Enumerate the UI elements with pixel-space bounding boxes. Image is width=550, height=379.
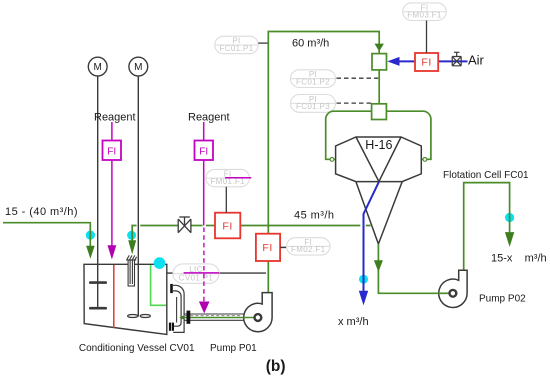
- arrow reagent1 into vessel: [108, 245, 117, 259]
- agitator paddle 2: [128, 315, 138, 318]
- svg-text:Reagent: Reagent: [188, 112, 230, 124]
- arrow tiny green suction start: [179, 315, 184, 320]
- svg-text:Conditioning Vessel CV01: Conditioning Vessel CV01: [79, 343, 195, 354]
- svg-text:M: M: [134, 62, 142, 73]
- wire reagent 2 magenta: [203, 122, 205, 226]
- wire green suction line: [183, 317, 255, 319]
- conditioning vessel CV01 body: [84, 264, 167, 334]
- svg-text:FM03.F1: FM03.F1: [407, 11, 442, 20]
- pump P01: [244, 293, 272, 332]
- arrow magenta dashed onto pump suction: [199, 302, 210, 314]
- vessel discharge flange bottom: [169, 323, 171, 331]
- instrument tag PI FC01.P1: [215, 36, 258, 54]
- wire LIC black process line: [167, 272, 266, 274]
- svg-text:Reagent: Reagent: [94, 112, 136, 124]
- wire main vertical A with top run to cell inlet: [268, 32, 379, 293]
- pump P02 hub: [450, 290, 457, 297]
- svg-text:FC01.P3: FC01.P3: [296, 102, 330, 111]
- node square S1 air mixer: [372, 54, 387, 70]
- wire cone underflow to pump P02: [378, 244, 448, 293]
- instrument FI reagent1 box: [103, 141, 122, 161]
- svg-text:Pump P02: Pump P02: [479, 294, 526, 305]
- node cyan dot feed: [86, 231, 95, 240]
- svg-text:Pump P01: Pump P01: [210, 343, 257, 354]
- wire pump P02 to flotation product: [464, 183, 510, 270]
- wire agitator shaft 1: [97, 76, 99, 309]
- flotation machine H-16 octagon body: [336, 137, 422, 182]
- node circle hood-left: [330, 158, 334, 162]
- vessel discharge manifold flange top: [170, 284, 173, 293]
- vessel discharge inner wall: [176, 297, 178, 323]
- pump suction dashed centerline: [185, 315, 242, 317]
- instrument tag FI FM02.F1: [287, 238, 331, 255]
- wire P2 dashed signal: [337, 77, 379, 79]
- wire agitator shaft 2: [137, 76, 139, 317]
- wire magenta overlay on LIC tag: [184, 272, 220, 274]
- instrument tag PI FC01.P2: [291, 70, 336, 88]
- svg-text:FI: FI: [222, 220, 232, 232]
- arrow line B into vessel: [128, 240, 136, 254]
- pump suction pipe walls: [184, 314, 243, 320]
- motor M2: [129, 57, 148, 76]
- instrument tag FI FM01.F1: [206, 169, 250, 186]
- vessel discharge elbow outer: [173, 285, 184, 332]
- svg-text:FI: FI: [199, 146, 208, 157]
- node cyan dot vessel top: [154, 257, 166, 269]
- wire air blue line: [398, 60, 468, 62]
- instrument FI reagent2 box: [195, 141, 214, 161]
- svg-text:FC01.P2: FC01.P2: [296, 77, 330, 86]
- wire FM01 tag to box: [225, 187, 227, 213]
- vessel discharge elbow inner: [173, 291, 181, 326]
- svg-text:x m³/h: x m³/h: [338, 316, 369, 328]
- motor M1: [88, 57, 107, 76]
- wire green into pump P02 hub: [438, 292, 450, 294]
- svg-text:FI: FI: [107, 146, 116, 157]
- vessel light green level line: [151, 265, 166, 305]
- wire magenta dashed signal reagent2 to LIC to pump pipe: [203, 228, 205, 303]
- node circle hood-right: [423, 158, 427, 162]
- pump P01 hub: [255, 314, 262, 321]
- instrument FI FM03 box: [415, 53, 438, 71]
- wire line B horizontal (valve/FI to vessel and to cell): [132, 226, 370, 241]
- arrow blue x m3/h: [359, 291, 368, 306]
- svg-text:FI: FI: [262, 242, 272, 254]
- wire feed line 15-(40) into vessel: [3, 223, 90, 247]
- valve V2 air valve: [452, 52, 461, 66]
- valve V1 manual: [178, 217, 191, 233]
- pump suction flange: [187, 311, 191, 324]
- node square S2 distributor: [372, 104, 387, 120]
- svg-text:15 - (40 m³/h): 15 - (40 m³/h): [5, 206, 78, 218]
- wire FM03 tag to box: [426, 21, 428, 54]
- node cyan dot product: [505, 213, 514, 222]
- svg-text:(b): (b): [266, 358, 286, 375]
- svg-text:CV01.P1: CV01.P1: [179, 274, 214, 283]
- svg-text:45 m³/h: 45 m³/h: [294, 210, 334, 222]
- arrow blue into square S1: [387, 57, 399, 66]
- agitator paddle 1b: [90, 307, 105, 310]
- arrow into air mix square: [375, 44, 384, 52]
- svg-text:Air: Air: [468, 53, 485, 68]
- wire magenta overlay on FM01 tag: [225, 177, 251, 179]
- vessel red line: [113, 265, 115, 328]
- svg-text:15-x m³/h: 15-x m³/h: [491, 253, 547, 265]
- wire reagent 1 magenta: [111, 122, 113, 246]
- node cyan dot tailings: [359, 275, 368, 284]
- wire blue tailings line: [364, 182, 379, 291]
- svg-text:Flotation Cell FC01: Flotation Cell FC01: [443, 170, 529, 181]
- agitator paddle 1a: [90, 281, 105, 284]
- instrument FI FM02 box: [256, 234, 280, 261]
- wire hood of flotation cell: [326, 111, 431, 159]
- instrument tag LIC CV01.P1: [173, 264, 219, 283]
- node cyan dot line B drop: [127, 231, 136, 240]
- instrument FI FM01 box: [215, 213, 240, 239]
- arrow feed into vessel: [86, 246, 95, 259]
- arrow underflow: [374, 260, 383, 272]
- instrument tag FI FM03.F1: [403, 3, 447, 21]
- svg-text:M: M: [94, 62, 102, 73]
- svg-text:FI: FI: [421, 56, 431, 68]
- svg-text:FC01.P1: FC01.P1: [219, 44, 253, 53]
- svg-text:H-16: H-16: [365, 138, 392, 152]
- standpipe in vessel: [126, 255, 136, 286]
- wire P3 dashed signal: [337, 102, 372, 104]
- svg-text:60 m³/h: 60 m³/h: [292, 38, 329, 50]
- flotation machine cone: [356, 182, 402, 244]
- wire P1 tag tick: [258, 42, 267, 44]
- arrow product 15-x: [505, 232, 514, 247]
- pump P02: [439, 270, 467, 307]
- wire FM02 box to tag tick: [280, 246, 287, 248]
- instrument tag PI FC01.P3: [291, 95, 336, 113]
- svg-text:FM02.F1: FM02.F1: [291, 245, 326, 254]
- flotation machine internal V: [356, 137, 401, 182]
